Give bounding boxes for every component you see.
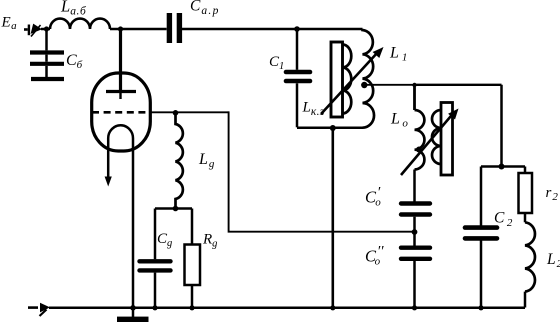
wire anode lead (119, 29, 122, 90)
node capacitive tap (412, 229, 418, 235)
wire Cb top stub (45, 29, 48, 77)
wire C2 top lead (480, 167, 483, 227)
node output branch (499, 164, 505, 170)
wire Co'' bottom lead (413, 261, 416, 308)
terminal bottom arrow (28, 303, 50, 316)
node rail Rg (189, 305, 194, 310)
wire load top bar (481, 165, 525, 168)
node C1 top (294, 26, 300, 32)
wire C2 bottom lead (480, 241, 483, 308)
svg-text:Са.р: Са.р (190, 0, 220, 17)
node rail Co (412, 305, 417, 310)
svg-text:С1: С1 (269, 54, 284, 72)
tube anode plate (106, 90, 136, 93)
node Lo branch (412, 83, 416, 87)
wire ground lead (132, 308, 135, 317)
wire Ca.r to tank top (182, 28, 363, 31)
capacitor C1 (286, 72, 310, 81)
wire tank bottom (297, 126, 363, 129)
wire grid to feedback corner (151, 111, 229, 113)
node tank bottom junction (330, 125, 336, 131)
wire Rg bottom lead (191, 285, 194, 308)
resistor r2 (519, 173, 533, 213)
wire top rail left (41, 28, 50, 31)
svg-text:Lк.з: Lк.з (302, 100, 325, 119)
inductor La.b (50, 19, 110, 29)
wire Co' to Co'' (413, 217, 416, 246)
capacitor Cg (140, 261, 171, 270)
inductor Lg (176, 113, 183, 209)
svg-text:L2: L2 (546, 251, 560, 270)
tube V1 envelope (92, 73, 151, 151)
node rail tank (330, 305, 335, 310)
wire C1 bottom lead (296, 83, 299, 127)
node Lg top (173, 110, 179, 116)
wire Lo bottom stub (413, 170, 416, 203)
svg-text:С′о: С′о (365, 185, 381, 209)
node rail Cg (152, 305, 157, 310)
wire tap to output (364, 84, 415, 86)
coil Lo shorted turn winding (432, 110, 441, 164)
node junction Cb tap (44, 26, 49, 31)
wire Lo top stub (413, 85, 416, 110)
coil Lo shorted turn (441, 103, 453, 176)
wire r2 to L2 (524, 213, 527, 222)
wire L2 bottom lead (524, 292, 527, 308)
capacitor Co' (401, 204, 430, 215)
wire bias bar (155, 207, 192, 210)
wire Cg bottom lead (154, 273, 157, 308)
capacitor Ca.r (169, 13, 179, 43)
tube anode tick (119, 93, 121, 99)
svg-text:С2: С2 (494, 210, 513, 230)
svg-text:С′′о: С′′о (365, 244, 384, 268)
svg-text:Еа: Еа (1, 15, 18, 33)
wire tank to ground rail (331, 128, 334, 308)
svg-text:Lg: Lg (198, 151, 215, 170)
coil Lk.z shorted turn (331, 42, 343, 117)
coil Lk.z winding (343, 45, 352, 114)
wire r2 top lead (524, 167, 527, 174)
capacitor Co'' (401, 248, 430, 259)
variometer arrow L1 (321, 47, 384, 114)
svg-text:Lо: Lо (390, 111, 408, 130)
resistor Rg (185, 245, 201, 286)
node Lg bottom (173, 206, 179, 212)
wire Cg top lead (154, 209, 157, 260)
tube cathode arrowhead (105, 177, 112, 187)
wire tap continuation (413, 84, 501, 86)
wire Rg top lead (191, 209, 194, 245)
terminal Ea arrow (24, 24, 42, 37)
svg-text:Сg: Сg (157, 231, 172, 249)
inductor Lo (415, 110, 425, 170)
wire C1 top lead (296, 29, 299, 70)
wire feedback from grid to capacitive tap (229, 111, 413, 231)
ground (117, 317, 149, 322)
node rail cathode (130, 305, 136, 311)
capacitor Cb (30, 53, 64, 80)
svg-text:Сб: Сб (66, 52, 83, 71)
wire bottom rail (49, 307, 525, 310)
tube grid (dashed) (92, 111, 151, 114)
node anode junction (118, 26, 123, 31)
wire La.b to Ca.r (110, 28, 167, 31)
wire output vertical (500, 85, 503, 167)
svg-text:L1: L1 (389, 45, 407, 64)
inductor L1 (363, 29, 375, 128)
capacitor C2 (465, 228, 497, 239)
svg-text:Lа.б: Lа.б (60, 0, 87, 18)
variometer arrow Lo (401, 109, 459, 176)
svg-text:Rg: Rg (202, 232, 217, 250)
svg-text:r2: r2 (546, 185, 559, 203)
node L1 tap (361, 82, 367, 88)
inductor L2 (525, 222, 535, 291)
tube cathode (108, 125, 133, 307)
node rail C2 (478, 305, 483, 310)
